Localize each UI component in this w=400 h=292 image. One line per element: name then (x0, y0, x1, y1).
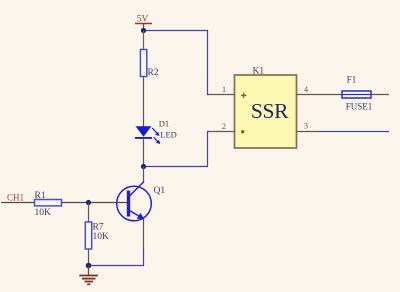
svg-text:LED: LED (160, 130, 177, 140)
port CH1 (7, 193, 24, 203)
pin 1 (208, 85, 235, 95)
svg-text:CH1: CH1 (7, 193, 24, 203)
resistor R1 (1, 191, 89, 218)
svg-text:10K: 10K (35, 208, 52, 218)
node junction at 5V / R2 (141, 28, 146, 33)
svg-text:R7: R7 (93, 223, 104, 233)
wire SSR pin 3 out (319, 131, 389, 133)
pin 4 (297, 85, 325, 95)
svg-text:F1: F1 (347, 75, 357, 85)
svg-text:FUSE1: FUSE1 (346, 102, 373, 112)
node junction base / R7 (86, 200, 91, 205)
node junction R7 / emitter / ground (86, 263, 92, 269)
svg-text:10K: 10K (93, 232, 110, 242)
wire emitter to ground rail (89, 249, 144, 266)
svg-text:R1: R1 (35, 191, 46, 201)
svg-text:4: 4 (304, 85, 308, 94)
relay K1 SSR (235, 67, 297, 149)
wire 5V net to SSR pin 1 (144, 31, 210, 95)
node junction LED cathode / collector (141, 164, 146, 169)
svg-text:2: 2 (222, 122, 226, 131)
svg-text:1: 1 (222, 85, 226, 94)
svg-text:R2: R2 (148, 68, 159, 78)
ground (79, 266, 98, 285)
resistor R2 (140, 31, 158, 127)
power 5V (135, 15, 152, 31)
pin 2 (208, 122, 235, 132)
wire collector node to SSR pin 2 (144, 132, 210, 167)
resistor R7 (85, 203, 109, 266)
pin 3 (297, 122, 320, 132)
wire base net (89, 202, 128, 204)
fuse F1 (324, 75, 389, 112)
svg-text:SSR: SSR (251, 99, 289, 123)
LED D1 (135, 119, 177, 167)
svg-text:3: 3 (304, 122, 308, 131)
transistor Q1 (117, 167, 166, 251)
svg-text:D1: D1 (159, 119, 169, 129)
svg-text:K1: K1 (253, 67, 265, 77)
svg-text:Q1: Q1 (154, 186, 166, 196)
